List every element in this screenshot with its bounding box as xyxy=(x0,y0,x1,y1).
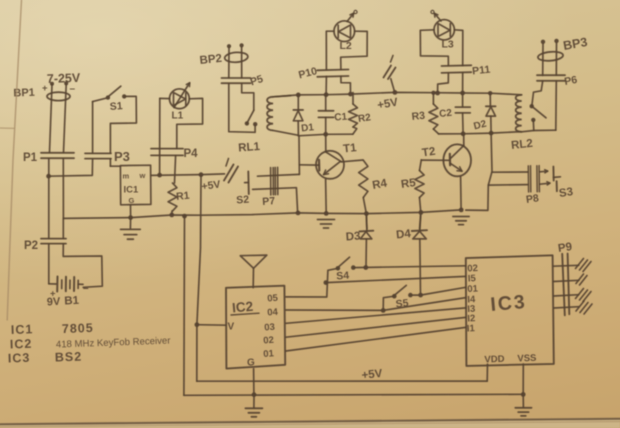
pin VDD xyxy=(484,354,505,366)
svg-text:B1: B1 xyxy=(64,295,80,308)
svg-text:IC1: IC1 xyxy=(124,185,140,196)
connector P8 xyxy=(525,166,540,206)
label battery xyxy=(47,283,89,308)
resistor R4 xyxy=(359,160,389,197)
wire xyxy=(62,218,64,238)
wire row I3 xyxy=(286,308,466,323)
wire xyxy=(49,244,56,284)
pin I5 xyxy=(468,273,477,284)
svg-text:IC2: IC2 xyxy=(231,299,253,316)
connector BP2 xyxy=(199,43,248,67)
connector BP3 xyxy=(538,35,589,62)
pin VSS xyxy=(517,353,536,365)
pin G xyxy=(129,196,135,205)
wire xyxy=(341,31,368,69)
pin G xyxy=(247,358,255,369)
svg-text:R1: R1 xyxy=(176,190,191,203)
connector P9 xyxy=(562,254,569,316)
svg-text:P3: P3 xyxy=(114,149,130,164)
wire xyxy=(553,264,579,267)
node xyxy=(199,172,204,177)
connector P7 xyxy=(262,167,278,208)
svg-text:RL2: RL2 xyxy=(511,138,534,152)
connector P6 xyxy=(537,74,578,88)
wire xyxy=(130,205,132,218)
label +5V top xyxy=(376,96,399,111)
node xyxy=(195,322,200,327)
wire xyxy=(110,96,136,153)
svg-text:BP3: BP3 xyxy=(562,35,588,53)
pin 04 xyxy=(267,307,279,319)
svg-text:P2: P2 xyxy=(24,240,38,252)
svg-text:+5V: +5V xyxy=(361,368,383,382)
wire xyxy=(543,43,557,75)
svg-text:P7: P7 xyxy=(262,195,276,208)
pin 03 xyxy=(264,322,275,334)
node xyxy=(488,91,492,95)
node xyxy=(324,280,329,285)
svg-text:R5: R5 xyxy=(400,177,417,191)
svg-text:P4: P4 xyxy=(184,148,199,160)
hatch xyxy=(576,289,592,302)
wire node xyxy=(439,132,522,134)
wire xyxy=(253,188,298,212)
node xyxy=(460,91,465,96)
node xyxy=(489,131,494,136)
node xyxy=(324,92,329,97)
wire top rail xyxy=(273,92,522,96)
wire xyxy=(325,76,327,94)
wire xyxy=(532,81,557,130)
wire xyxy=(466,133,528,210)
svg-text:05: 05 xyxy=(267,293,279,305)
svg-text:01: 01 xyxy=(263,348,275,360)
svg-text:+5V: +5V xyxy=(376,96,399,111)
node xyxy=(419,210,424,215)
IC IC1 xyxy=(120,165,150,205)
wire xyxy=(325,134,327,152)
connector P3 xyxy=(85,153,111,158)
node xyxy=(521,392,526,397)
diode D3 xyxy=(345,214,373,268)
svg-text:G: G xyxy=(129,196,135,205)
wire base xyxy=(299,164,319,166)
wire node xyxy=(298,134,352,136)
node xyxy=(296,211,301,216)
svg-text:RL1: RL1 xyxy=(238,141,261,155)
wire xyxy=(175,156,176,183)
node xyxy=(381,308,386,313)
antenna xyxy=(240,255,266,288)
svg-text:P9: P9 xyxy=(557,241,573,255)
wire row 01 xyxy=(410,287,465,295)
wire row I5 xyxy=(326,276,466,282)
capacitor C1 xyxy=(318,95,347,135)
node xyxy=(348,92,353,97)
IC IC3 xyxy=(466,255,554,366)
wire xyxy=(286,268,338,297)
text IC2 receiver xyxy=(10,335,172,351)
continuation mark 1 xyxy=(224,159,238,183)
label 7-25V xyxy=(47,71,81,86)
continuation mark 1 xyxy=(384,56,396,80)
wire xyxy=(420,30,448,66)
ground xyxy=(453,217,469,225)
svg-text:R4: R4 xyxy=(371,177,388,191)
connector P1 xyxy=(23,152,74,164)
wire xyxy=(92,102,94,154)
minus mark xyxy=(70,84,76,95)
svg-text:7805: 7805 xyxy=(62,321,94,336)
svg-text:–: – xyxy=(83,283,89,294)
transistor T1 xyxy=(316,142,358,179)
wire V xyxy=(197,324,226,327)
label IC3 xyxy=(490,291,528,316)
svg-text:w: w xyxy=(139,171,146,180)
node xyxy=(182,214,187,219)
wire row 04-I4 xyxy=(286,298,466,311)
svg-text:9V: 9V xyxy=(47,296,62,309)
resistor R5 xyxy=(400,160,424,198)
margin line xyxy=(7,0,21,320)
svg-text:L2: L2 xyxy=(340,40,352,52)
svg-text:D1: D1 xyxy=(301,122,315,134)
paper bottom edge xyxy=(0,419,620,428)
wire xyxy=(62,159,64,219)
svg-text:V: V xyxy=(228,322,235,333)
LED L3 xyxy=(431,10,455,50)
resistor R1 xyxy=(168,183,190,211)
LED L2 xyxy=(334,10,357,52)
switch S4 xyxy=(336,257,356,282)
wire +5V drop xyxy=(197,175,201,382)
wire xyxy=(438,73,449,93)
IC IC2 xyxy=(226,286,285,369)
node xyxy=(128,215,133,220)
text IC3 BS2 xyxy=(8,350,83,366)
svg-text:L3: L3 xyxy=(442,39,454,51)
text IC1 7805 xyxy=(11,321,94,337)
diode D1 xyxy=(293,95,315,136)
switch S3 xyxy=(553,167,573,200)
svg-text:D4: D4 xyxy=(396,228,412,242)
pin 02 xyxy=(263,335,274,347)
pin V xyxy=(228,322,235,333)
svg-text:S4: S4 xyxy=(336,270,350,283)
svg-text:C1: C1 xyxy=(334,112,348,124)
hatch xyxy=(576,259,592,272)
wire ground rail xyxy=(63,210,461,219)
LED L1 xyxy=(170,83,190,122)
connector P4 xyxy=(151,148,198,160)
battery B1 xyxy=(57,277,83,292)
wire row I1 xyxy=(286,327,466,351)
pin I2 xyxy=(467,313,476,324)
svg-text:04: 04 xyxy=(267,307,279,319)
svg-text:P5: P5 xyxy=(249,73,265,88)
wire xyxy=(50,84,67,152)
svg-text:P1: P1 xyxy=(23,152,38,164)
svg-text:418 MHz KeyFob Receiver: 418 MHz KeyFob Receiver xyxy=(56,335,172,350)
svg-text:S2: S2 xyxy=(236,194,250,207)
svg-text:–: – xyxy=(70,84,76,95)
relay contacts RL2 xyxy=(522,104,556,132)
label +5V xyxy=(201,178,221,193)
svg-text:L1: L1 xyxy=(172,111,184,122)
node xyxy=(169,213,174,218)
node xyxy=(296,93,301,98)
wire base xyxy=(421,159,449,161)
svg-text:D2: D2 xyxy=(473,119,488,133)
wire xyxy=(229,47,242,78)
wire row I2 xyxy=(286,317,466,337)
wire +5V row xyxy=(197,380,487,382)
node xyxy=(364,211,369,216)
wire emitter xyxy=(325,179,328,214)
connector P11 xyxy=(442,64,491,78)
svg-text:BS2: BS2 xyxy=(55,350,83,365)
switch S1 xyxy=(93,86,127,113)
margin tick xyxy=(0,127,14,129)
transistor T2 xyxy=(421,144,471,176)
svg-text:03: 03 xyxy=(264,322,275,334)
label RL2 xyxy=(511,138,534,152)
svg-text:R2: R2 xyxy=(357,112,372,125)
wire xyxy=(391,79,395,92)
wire row 02 xyxy=(353,266,466,268)
connector P5 xyxy=(222,73,265,88)
wire xyxy=(160,97,170,99)
node xyxy=(157,173,162,178)
svg-text:P11: P11 xyxy=(472,64,491,78)
svg-text:+: + xyxy=(42,83,48,94)
svg-text:T2: T2 xyxy=(421,146,436,160)
node xyxy=(393,90,398,95)
wire xyxy=(540,170,550,185)
label IC1 xyxy=(124,185,140,196)
svg-text:IC1: IC1 xyxy=(11,322,34,337)
plus mark xyxy=(42,83,48,94)
wire xyxy=(341,76,351,94)
ground xyxy=(121,218,141,240)
svg-text:m: m xyxy=(123,172,130,181)
wire xyxy=(553,280,579,281)
label P3 xyxy=(114,149,130,164)
switch S2 xyxy=(236,172,250,207)
svg-text:IC2: IC2 xyxy=(10,337,33,352)
pin I1 xyxy=(467,323,476,334)
node xyxy=(323,132,328,137)
resistor R3 xyxy=(411,93,439,134)
svg-text:BP2: BP2 xyxy=(199,53,223,67)
hatch xyxy=(576,301,592,314)
svg-text:IC3: IC3 xyxy=(8,351,31,366)
label P9 xyxy=(557,241,573,255)
svg-text:VSS: VSS xyxy=(517,353,536,365)
label +5V xyxy=(361,368,383,382)
wire VSS xyxy=(522,364,524,394)
wire xyxy=(63,244,102,287)
node xyxy=(461,131,466,136)
relay coil RL1 xyxy=(267,96,298,136)
wire xyxy=(298,136,300,175)
node xyxy=(363,265,368,270)
wire xyxy=(159,98,161,175)
svg-text:IC3: IC3 xyxy=(490,291,528,316)
wire +5V rail xyxy=(151,174,225,176)
pin 01 xyxy=(467,283,479,295)
wire xyxy=(48,159,50,239)
wire xyxy=(363,198,367,229)
ground xyxy=(245,395,262,417)
relay contacts RL1 xyxy=(229,83,258,132)
wire ground row xyxy=(184,394,523,395)
pin out xyxy=(139,171,146,180)
svg-text:P6: P6 xyxy=(563,74,578,88)
ground xyxy=(318,220,335,229)
hatch xyxy=(576,274,587,285)
wire xyxy=(110,165,120,167)
wire ground drop xyxy=(183,216,186,395)
node xyxy=(431,91,435,95)
pin 05 xyxy=(267,293,279,305)
ground xyxy=(515,394,531,416)
svg-text:I1: I1 xyxy=(467,323,476,334)
pin I4 xyxy=(467,294,476,305)
node xyxy=(46,174,51,179)
wire xyxy=(109,159,111,166)
wire G xyxy=(253,369,255,395)
wire xyxy=(177,98,203,148)
wire xyxy=(554,295,579,296)
wire xyxy=(462,73,464,93)
svg-text:S3: S3 xyxy=(558,186,574,200)
connector BP1 xyxy=(47,81,70,100)
wire xyxy=(326,31,334,69)
svg-text:R3: R3 xyxy=(411,110,426,123)
wire xyxy=(171,211,173,215)
wire xyxy=(454,30,462,66)
connector P2 xyxy=(24,239,66,252)
node xyxy=(252,392,257,397)
wire xyxy=(463,134,465,146)
wire xyxy=(383,296,394,310)
wire xyxy=(420,198,421,229)
label BP1 xyxy=(13,87,35,100)
pin I3 xyxy=(467,304,476,315)
svg-text:D3: D3 xyxy=(345,230,361,243)
svg-text:G: G xyxy=(247,358,255,369)
wire collector xyxy=(342,160,363,162)
relay coil RL2 xyxy=(516,95,522,132)
node xyxy=(418,293,423,298)
pin in xyxy=(123,172,130,181)
connector P10 xyxy=(297,65,348,81)
svg-text:C2: C2 xyxy=(439,108,453,120)
node xyxy=(435,91,440,96)
svg-text:P8: P8 xyxy=(525,192,540,206)
wire emitter xyxy=(460,177,463,210)
capacitor C2 xyxy=(439,93,471,134)
node xyxy=(324,211,329,216)
wire xyxy=(49,159,93,176)
svg-text:+5V: +5V xyxy=(201,178,221,193)
label RL1 xyxy=(238,141,261,155)
wire xyxy=(554,307,579,308)
svg-text:P10: P10 xyxy=(297,65,318,81)
svg-text:S1: S1 xyxy=(109,100,123,113)
node xyxy=(459,208,464,213)
diode D4 xyxy=(396,212,427,295)
wire VDD xyxy=(486,364,488,381)
diode D2 xyxy=(473,93,496,133)
label IC2 xyxy=(231,299,259,316)
pin 02 xyxy=(467,263,478,275)
wire xyxy=(258,174,300,176)
svg-text:T1: T1 xyxy=(343,142,358,155)
svg-text:02: 02 xyxy=(263,335,274,347)
switch S5 xyxy=(392,285,413,310)
pin 01 xyxy=(263,348,275,360)
resistor R2 xyxy=(349,93,372,135)
